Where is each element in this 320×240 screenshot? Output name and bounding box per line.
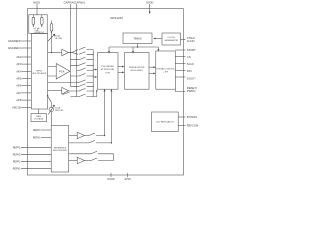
svg-text:AVDD: AVDD: [33, 1, 40, 5]
wire filter to control bus2: [149, 73, 156, 75]
svg-text:REFN0: REFN0: [33, 137, 41, 139]
pin START: [175, 49, 185, 51]
pin AIN4: [22, 70, 31, 72]
pin REFP1: [21, 160, 51, 162]
burnout current source I2: [41, 15, 44, 27]
pin DGND: [110, 173, 112, 177]
svg-text:10 µA: 10 µA: [55, 34, 61, 37]
wire rail to modulator P: [93, 69, 97, 71]
buffer U13: [77, 132, 89, 138]
svg-text:GENERATOR: GENERATOR: [164, 39, 178, 42]
pin AIN2: [22, 56, 31, 58]
svg-text:REFP2: REFP2: [13, 147, 21, 149]
chip outline: [27, 9, 183, 175]
wire refmux row2: [69, 142, 89, 144]
pin AINCOM: [22, 106, 31, 108]
burnout current source box: [29, 15, 47, 34]
switch row y70.6: [77, 68, 94, 71]
svg-text:AINCOM: AINCOM: [12, 106, 22, 109]
sensor bias current source I3: [48, 21, 55, 53]
wire refmux to buffer U13: [69, 135, 77, 137]
svg-text:AIN4: AIN4: [16, 70, 22, 73]
svg-text:REFP0: REFP0: [33, 130, 41, 132]
buffer U4: [62, 87, 69, 94]
svg-text:DVDD: DVDD: [146, 1, 153, 5]
pin REFN1: [21, 167, 51, 169]
wire mux to buffer U4: [48, 90, 62, 92]
svg-text:DIGITAL CONTROL: DIGITAL CONTROL: [156, 68, 175, 71]
wire modulator to filter bus1: [118, 66, 125, 68]
wire ref return: [113, 154, 115, 161]
svg-text:BYPASS: BYPASS: [187, 115, 197, 119]
pin REFP2: [21, 146, 51, 148]
svg-text:CAPN/A1: CAPN/A1: [75, 2, 86, 5]
switch row y91.6: [69, 88, 93, 91]
switch row y82.5: [48, 80, 94, 83]
pin RESET/PWDN: [175, 88, 185, 92]
svg-text:DGND: DGND: [107, 178, 114, 181]
pin AVDD: [36, 4, 38, 17]
svg-text:PWDN: PWDN: [187, 89, 196, 93]
svg-text:REF DET: REF DET: [55, 110, 64, 112]
switch below buffer U4: [62, 92, 69, 95]
svg-text:REFN1: REFN1: [13, 168, 21, 170]
pin CS: [175, 56, 185, 58]
pin REFN2: [21, 153, 51, 155]
digital control U7: [156, 51, 176, 89]
svg-text:PGA: PGA: [59, 69, 65, 73]
switch sensor bias tap: [47, 95, 51, 102]
node REFP0 internal: [41, 129, 51, 131]
switch ref1: [89, 133, 105, 136]
svg-text:START: START: [187, 48, 196, 52]
switch row y49.6: [79, 47, 93, 50]
svg-text:CLOCK: CLOCK: [167, 37, 175, 39]
buffer U2: [62, 49, 72, 56]
wire rail to modulator N: [93, 76, 97, 78]
switch row y86.3: [71, 84, 94, 87]
wire bias to mux: [38, 109, 40, 114]
svg-text:AIN1/REFN1: AIN1/REFN1: [8, 47, 22, 50]
clock generator U9: [162, 33, 181, 45]
svg-text:CS: CS: [187, 55, 191, 59]
svg-text:INPUT: INPUT: [36, 71, 43, 73]
switch row y65.3: [70, 63, 93, 66]
switch ref2: [89, 140, 111, 143]
svg-text:VOLTAGE: VOLTAGE: [34, 118, 44, 121]
pin AIN0/REFP1: [22, 40, 31, 42]
pin AIN1/REFN1: [22, 47, 31, 49]
switch row y59.7: [71, 57, 94, 60]
svg-text:AIN5: AIN5: [16, 78, 22, 81]
svg-text:REFP1: REFP1: [13, 161, 21, 163]
svg-text:REFERENCE: REFERENCE: [54, 147, 67, 149]
digital filter U6: [125, 53, 150, 90]
svg-text:AVSS: AVSS: [124, 178, 131, 181]
svg-text:LDO REGULATOR: LDO REGULATOR: [156, 121, 174, 124]
svg-text:+ SPI: + SPI: [163, 71, 169, 73]
wire clock to timing: [153, 38, 162, 40]
pin BYPASS: [178, 116, 185, 118]
pin CAPP: [70, 4, 72, 86]
svg-text:VB, REF: VB, REF: [55, 38, 64, 40]
svg-text:4TH ORDER: 4TH ORDER: [101, 66, 114, 68]
switch row y76.0: [70, 73, 93, 76]
wire ref2 to modulator: [110, 89, 112, 143]
svg-text:MULTIPLEXER: MULTIPLEXER: [33, 73, 47, 75]
svg-text:ΔΣ MODULA-: ΔΣ MODULA-: [101, 68, 115, 71]
wire modulator to filter bus2: [118, 72, 125, 74]
wire ref1 to modulator: [104, 89, 106, 136]
svg-text:AIN2: AIN2: [16, 56, 22, 59]
wire refmux to buffer U14: [69, 160, 77, 162]
label input multiplexer: [33, 71, 47, 76]
svg-text:DIN: DIN: [187, 69, 192, 73]
svg-text:AIN3: AIN3: [16, 63, 22, 66]
svg-text:10 µA: 10 µA: [55, 106, 61, 109]
input multiplexer: [31, 34, 47, 109]
switch ref3: [91, 151, 114, 154]
svg-text:MULTIPLEXER: MULTIPLEXER: [53, 150, 67, 152]
buffer U14: [77, 157, 91, 163]
pin CAPN: [76, 4, 78, 97]
svg-text:AIN7: AIN7: [16, 92, 22, 95]
timing bus: [108, 44, 159, 54]
wire mux to PGA inputs: [48, 67, 57, 77]
bias voltage box U11: [31, 114, 47, 122]
wire filter to control bus1: [149, 66, 156, 68]
svg-text:CLKIN: CLKIN: [187, 39, 195, 43]
svg-text:CAPP/A0: CAPP/A0: [64, 1, 76, 5]
svg-text:TOR: TOR: [105, 73, 110, 75]
wire refmux row3: [69, 153, 91, 155]
svg-text:DIGITAL FILTER: DIGITAL FILTER: [129, 66, 145, 69]
wire mux to buffer U2: [48, 52, 62, 53]
op-amp PGA U3: [56, 64, 70, 80]
node REFN0 internal: [41, 137, 51, 139]
pin AIN8: [22, 99, 31, 101]
svg-text:DOUT/: DOUT/: [187, 76, 196, 80]
svg-text:AIN6: AIN6: [16, 85, 22, 88]
pin DIN: [175, 70, 185, 72]
reference current source I4: [48, 102, 55, 125]
svg-text:(FIR & SINC): (FIR & SINC): [131, 70, 144, 72]
svg-text:TIMING: TIMING: [133, 37, 142, 40]
reference multiplexer U12: [51, 126, 68, 173]
pin XTAL1/CLKIN: [181, 39, 186, 41]
svg-text:AIN0/REFP1: AIN0/REFP1: [8, 40, 22, 43]
wire buffer U2 split: [69, 50, 79, 55]
svg-text:REFCOM: REFCOM: [187, 123, 198, 127]
pin DOUT: [175, 76, 185, 78]
svg-text:BIAS: BIAS: [36, 115, 41, 118]
analog bus rail: [93, 50, 94, 97]
pin AIN3: [22, 63, 31, 65]
svg-text:ADS1262: ADS1262: [110, 16, 123, 20]
wire rail bottom to modulator: [93, 89, 98, 96]
pin AIN7: [22, 92, 31, 94]
svg-text:SCLK: SCLK: [187, 62, 194, 66]
switch row y54.3: [79, 52, 93, 55]
switch row y96.6: [71, 94, 94, 97]
pin REFCOM: [178, 124, 185, 126]
pin AIN5: [22, 78, 31, 80]
wire AVDD to burnout box: [36, 13, 38, 16]
pin AVSS: [127, 173, 129, 177]
LDO regulator U10: [152, 112, 179, 132]
pin DVDD: [149, 4, 151, 14]
switch ref4: [91, 158, 114, 161]
delta-sigma modulator U5: [98, 53, 119, 90]
svg-text:AIN8: AIN8: [16, 99, 22, 102]
pin AIN6: [22, 85, 31, 87]
pin SCLK: [175, 63, 185, 65]
burnout current source I1: [32, 15, 35, 27]
timing box U8: [123, 33, 152, 44]
svg-text:REFN2: REFN2: [13, 154, 21, 156]
